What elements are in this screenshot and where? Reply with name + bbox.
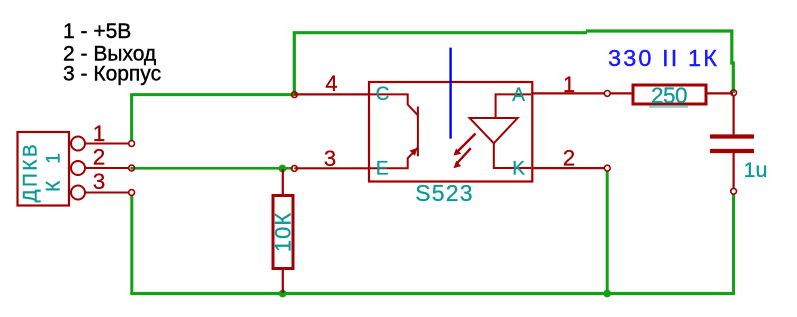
wire: resistor 250 right to cap node <box>708 92 734 94</box>
svg-text:К1: К1 <box>44 136 65 192</box>
wire: opto pin 2 red lead <box>533 167 605 169</box>
svg-text:330 II 1К: 330 II 1К <box>608 45 719 71</box>
light emission arrow 1 <box>453 134 475 156</box>
wire: +5V top rail (right segment and right vertical drop) <box>586 31 733 93</box>
terminal circle: connector pin 2 end <box>129 165 135 171</box>
svg-text:C: C <box>376 84 390 105</box>
wire: opto pin 3 red lead <box>294 167 370 169</box>
terminal circle: connector pin 3 end <box>129 190 135 196</box>
LED (opto emitter side) <box>470 94 531 168</box>
wire: capacitor top lead <box>732 95 734 134</box>
connector pin circle 1 <box>71 137 85 151</box>
svg-text:2: 2 <box>563 146 575 171</box>
connector pin circle 2 <box>71 161 85 175</box>
connector pin circle 3 <box>71 186 85 200</box>
terminal circle: resistor right node <box>731 90 737 96</box>
connector pin 1 stub wire <box>85 143 129 145</box>
value ghost under resistor 250 <box>649 105 688 108</box>
wire: 10K bottom lead <box>282 270 284 293</box>
svg-text:2: 2 <box>93 144 106 169</box>
wire: opto pin 1 red lead <box>533 92 605 94</box>
terminal circle: pin 3 node <box>292 166 298 172</box>
wire: capacitor bottom to ground rail <box>732 194 735 293</box>
wire: 10K top lead <box>282 169 284 194</box>
wire: +5V row from connector pin 1 to node <box>132 95 294 141</box>
terminal circle: pin 4 node <box>292 92 298 98</box>
wire: node to resistor 250 left <box>610 92 632 94</box>
svg-text:3: 3 <box>93 169 106 194</box>
svg-text:1: 1 <box>93 121 106 146</box>
svg-text:S523: S523 <box>415 180 474 206</box>
wire: output row from connector pin 2 to 10K node <box>130 167 293 170</box>
svg-text:250: 250 <box>651 83 687 108</box>
resistor 250 body <box>633 83 706 108</box>
optocoupler U1 body <box>369 82 532 182</box>
svg-text:1u: 1u <box>744 158 768 182</box>
wire: ground drop from connector pin 3 <box>130 196 133 294</box>
svg-text:A: A <box>512 85 525 106</box>
svg-text:3 - Корпус: 3 - Корпус <box>63 63 161 86</box>
note: pin legend text <box>63 20 161 86</box>
terminal circle: connector pin 1 end <box>129 141 135 147</box>
terminal circle: pin 2 node <box>604 165 610 171</box>
wire: opto pin 4 red lead <box>294 93 370 95</box>
wire: capacitor bottom lead <box>732 153 734 188</box>
svg-text:1: 1 <box>563 72 575 97</box>
phototransistor (opto output side) <box>370 94 418 168</box>
svg-text:3: 3 <box>324 146 336 171</box>
svg-text:ДПКВ: ДПКВ <box>21 142 42 203</box>
connector K1 (ДПКВ) body <box>18 132 70 206</box>
junction: output row / 10K top <box>279 165 287 173</box>
capacitor C1 plates <box>710 137 754 152</box>
svg-text:1 - +5В: 1 - +5В <box>63 20 131 43</box>
resistor 10K body <box>271 196 296 269</box>
svg-text:K: K <box>512 158 525 179</box>
terminal circle: pin 1 node <box>604 91 610 97</box>
terminal circle: capacitor bottom <box>731 188 737 194</box>
connector pin 3 stub wire <box>85 192 129 194</box>
junction: K drop / ground rail <box>603 290 611 298</box>
wire: +5V top rail (left segment and left vertical drop) <box>294 33 587 96</box>
svg-text:E: E <box>376 159 389 180</box>
svg-text:4: 4 <box>325 71 337 96</box>
connector pin 2 stub wire <box>85 167 129 169</box>
blue marker line through optocoupler <box>449 48 451 139</box>
svg-text:10К: 10К <box>271 212 296 252</box>
light emission arrow 2 <box>453 148 470 168</box>
wire: cathode K drop to ground rail <box>606 172 609 294</box>
junction: 10K bottom / ground rail <box>279 290 287 298</box>
wire: ground bottom rail <box>130 292 735 295</box>
